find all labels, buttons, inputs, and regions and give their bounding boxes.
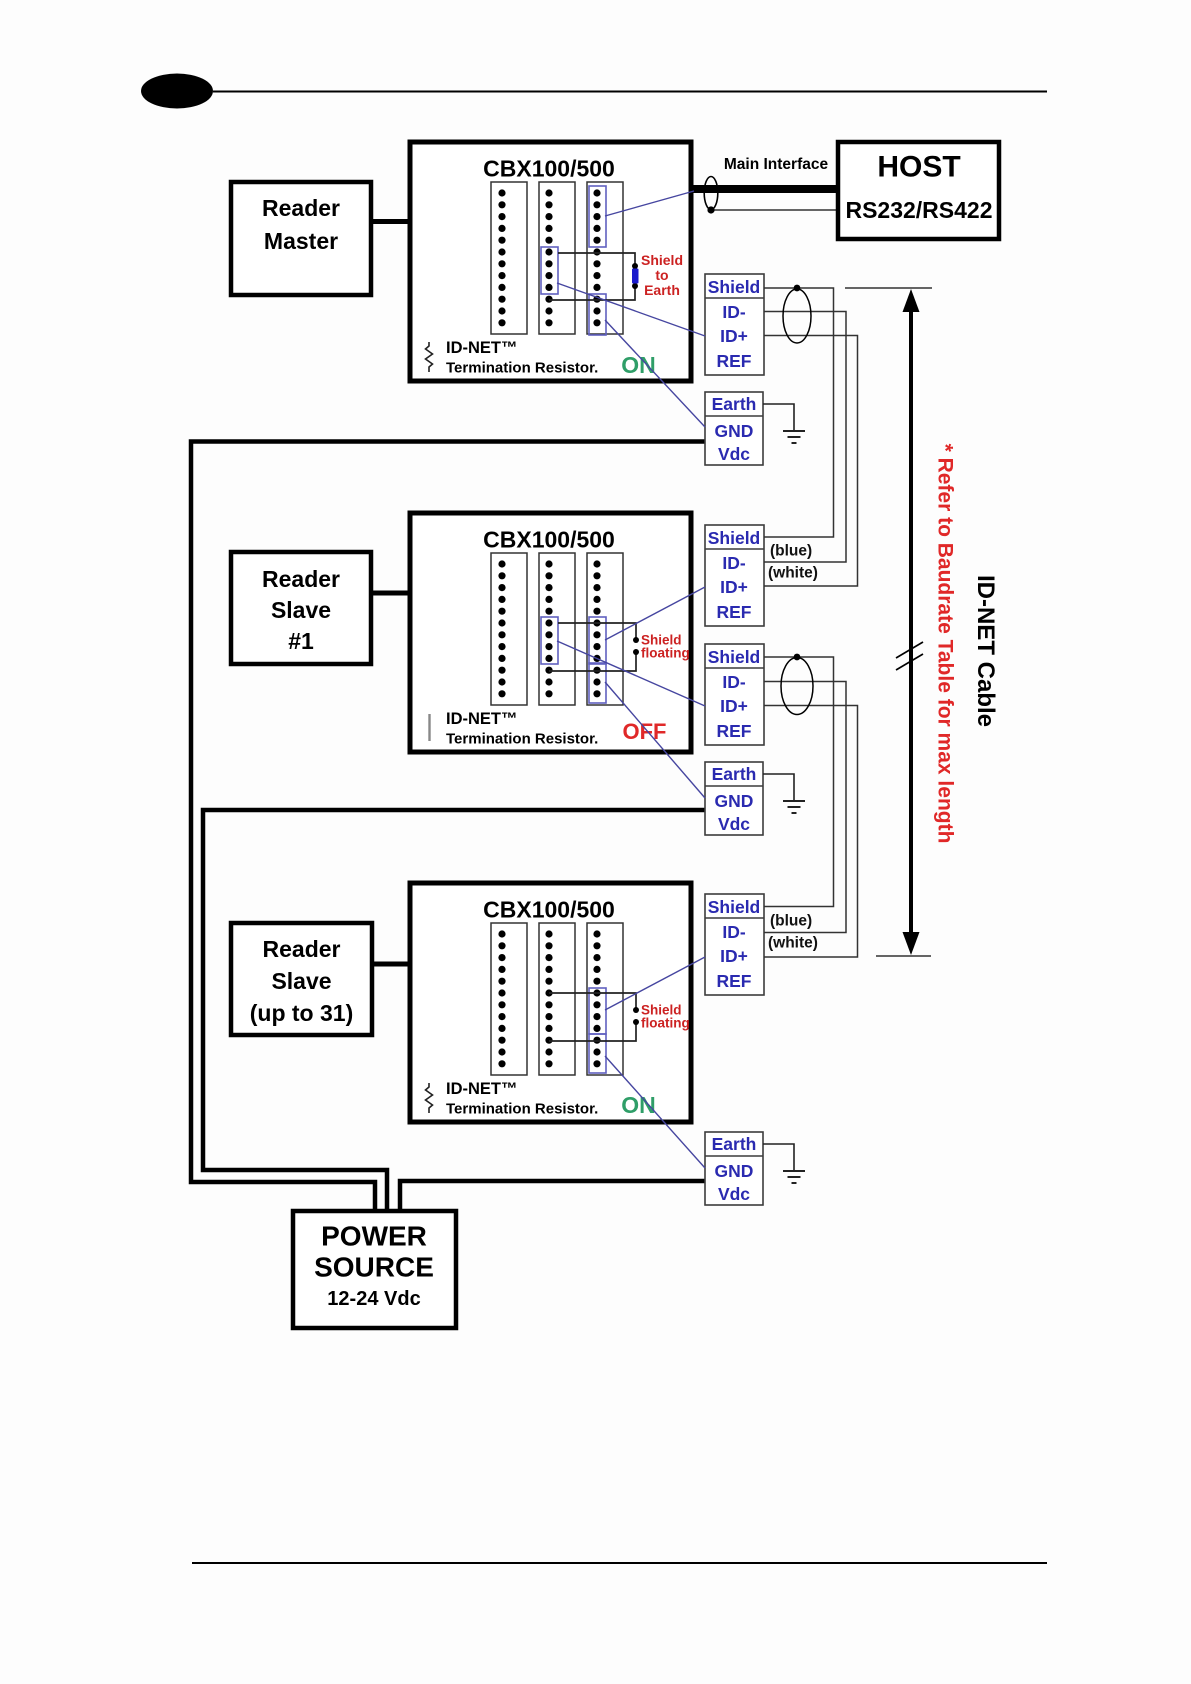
svg-text:POWER: POWER xyxy=(321,1221,427,1252)
label: ID-NET Cable (rotated) xyxy=(972,575,999,727)
node box: Earth/GND/Vdc (Slave #1) xyxy=(705,762,763,835)
svg-text:CBX100/500: CBX100/500 xyxy=(483,527,615,553)
junction dot on Shield wire (cable 1) xyxy=(794,285,801,292)
svg-text:ID-NET Cable: ID-NET Cable xyxy=(972,575,999,727)
header rule line xyxy=(213,91,1047,93)
resistor bypass bar CBX #2 xyxy=(428,714,430,741)
cable break symbol xyxy=(896,642,923,670)
svg-text:ID-NET™: ID-NET™ xyxy=(446,339,518,357)
svg-text:Slave: Slave xyxy=(271,968,331,994)
svg-text:Shield: Shield xyxy=(708,897,761,917)
junction dot on Shield wire (cable 2) xyxy=(794,654,801,661)
svg-text:(blue): (blue) xyxy=(770,543,812,560)
HOST RS232/RS422 box xyxy=(838,142,999,239)
terminal strip 2 of CBX #3 xyxy=(539,923,575,1075)
svg-text:RS232/RS422: RS232/RS422 xyxy=(845,197,992,223)
wire: reader Slave (up to 31) to CBX100/500 xyxy=(372,962,412,967)
callout line: CBX #2 port to GND (slave1 earth box) xyxy=(605,682,705,798)
label: Termination Resistor. CBX #1 xyxy=(446,360,598,377)
svg-text:ID+: ID+ xyxy=(720,946,748,966)
svg-text:(white): (white) xyxy=(768,565,818,582)
resistor symbol (zigzag) CBX #1 xyxy=(426,342,433,372)
wire: ID+ net, Master to Slave #1 xyxy=(764,336,858,587)
svg-text:ID+: ID+ xyxy=(720,696,748,716)
svg-text:ID+: ID+ xyxy=(720,326,748,346)
resistor symbol (zigzag) CBX #3 xyxy=(426,1083,433,1113)
cable sheath ellipse (main interface) xyxy=(704,177,718,210)
label: Main Interface xyxy=(724,156,829,173)
svg-text:SOURCE: SOURCE xyxy=(314,1252,434,1283)
svg-text:Earth: Earth xyxy=(644,282,680,298)
svg-text:GND: GND xyxy=(715,791,754,811)
wire: Shield net, Master to Slave #1 xyxy=(764,288,834,537)
svg-text:CBX100/500: CBX100/500 xyxy=(483,897,615,923)
wire: shield floating loop CBX #3 xyxy=(549,993,636,1041)
label: ID-NET(tm) CBX #2 xyxy=(446,710,518,728)
svg-text:Shield: Shield xyxy=(708,277,761,297)
wire: shield floating loop CBX #2 xyxy=(549,623,636,671)
svg-text:CBX100/500: CBX100/500 xyxy=(483,156,615,182)
wire: reader Master to CBX100/500 xyxy=(371,219,412,224)
svg-text:12-24 Vdc: 12-24 Vdc xyxy=(327,1288,420,1310)
svg-text:Master: Master xyxy=(264,228,338,254)
svg-text:Vdc: Vdc xyxy=(718,1184,750,1204)
svg-text:(white): (white) xyxy=(768,935,818,952)
CBX100/500 box #2 xyxy=(410,513,691,752)
svg-text:floating: floating xyxy=(641,1016,690,1031)
node box: Shield/ID-/ID+/REF (Reader Master) xyxy=(705,274,764,375)
svg-text:REF: REF xyxy=(717,351,752,371)
svg-text:Shield: Shield xyxy=(641,252,683,268)
callout line: CBX #2 port to ID+ (slave1 downstream box) xyxy=(557,641,705,706)
ground symbol (Slave #1) (earth wire + ground symbol) xyxy=(763,774,805,813)
label: Shield floating (red) CBX #3 xyxy=(641,1003,690,1031)
svg-text:ID-: ID- xyxy=(722,922,746,942)
svg-text:Earth: Earth xyxy=(712,1134,757,1154)
label: OFF (red) CBX #2 xyxy=(623,719,667,744)
POWER SOURCE box xyxy=(293,1211,456,1328)
label: ID-NET(tm) CBX #3 xyxy=(446,1080,518,1098)
label: * Refer to Baudrate Table for max length (red, rotated) xyxy=(934,444,957,844)
cable sheath ellipse (cable 2) xyxy=(781,658,813,715)
node box: Shield/ID-/ID+/REF (Slave #1 upstream) xyxy=(705,525,764,626)
svg-text:#1: #1 xyxy=(288,628,314,654)
terminal strip 1 of CBX #3 xyxy=(491,923,527,1075)
svg-text:ID-: ID- xyxy=(722,672,746,692)
callout line: CBX #1 port to ID+ (master shield box) xyxy=(557,283,705,336)
svg-text:Earth: Earth xyxy=(712,394,757,414)
reader Master box xyxy=(231,182,371,295)
wire: ID- net, Master to Slave #1 xyxy=(764,312,846,563)
svg-text:Reader: Reader xyxy=(262,566,340,592)
CBX100/500 box #3 xyxy=(410,883,691,1122)
ID-NET terminal highlight box (strip 3 upper) CBX #2 xyxy=(589,617,606,664)
svg-text:ID-: ID- xyxy=(722,302,746,322)
label: ON (green) CBX #3 xyxy=(621,1092,656,1118)
svg-text:(up to 31): (up to 31) xyxy=(250,1000,354,1026)
svg-text:Slave: Slave xyxy=(271,597,331,623)
svg-text:HOST: HOST xyxy=(877,151,960,184)
label: (white) wire cable 1 xyxy=(768,565,818,582)
ID-NET terminal highlight box (strip 2) CBX #2 xyxy=(541,617,558,664)
svg-text:Vdc: Vdc xyxy=(718,444,750,464)
ID-NET terminal highlight box (pins 1-5, strip 3) CBX #1 xyxy=(589,186,606,247)
svg-text:to: to xyxy=(655,267,668,283)
dimension anchor line top xyxy=(845,287,932,289)
dimension line with arrowheads (ID-NET cable) xyxy=(903,289,920,955)
wire: shield-to-earth loop CBX #1 xyxy=(549,253,635,300)
svg-text:REF: REF xyxy=(717,971,752,991)
label: Shield floating (red) CBX #2 xyxy=(641,633,690,661)
ID-NET terminal highlight box (pins 6-9, strip 2) CBX #1 xyxy=(541,247,558,294)
node box: Earth/GND/Vdc (Reader Master) xyxy=(705,392,763,465)
label: Shield to Earth (red) xyxy=(641,252,683,298)
svg-text:REF: REF xyxy=(717,602,752,622)
label: (white) wire cable 2 xyxy=(768,935,818,952)
ID-NET terminal highlight box (strip 3 lower) CBX #3 xyxy=(589,1034,606,1073)
terminal strip 1 of CBX #2 xyxy=(491,553,527,705)
wire: power net from Reader Master GND/Vdc to POWER SOURCE xyxy=(191,442,705,1212)
callout line: CBX #3 port to ID+ (slave2 shield box) xyxy=(605,957,705,1010)
wire: power net from Reader Slave (up to 31) GND/Vdc to POWER SOURCE xyxy=(400,1181,705,1211)
terminal strip 3 of CBX #3 xyxy=(587,923,623,1075)
header bullet ellipse xyxy=(141,74,213,109)
svg-text:ID-NET™: ID-NET™ xyxy=(446,710,518,728)
node box: Shield/ID-/ID+/REF (Slave #1 downstream) xyxy=(705,644,764,745)
node box: Shield/ID-/ID+/REF (Slave up to 31) xyxy=(705,894,764,995)
reader Slave #1 box xyxy=(231,552,371,664)
svg-text:Shield: Shield xyxy=(708,647,761,667)
svg-text:Earth: Earth xyxy=(712,764,757,784)
footer rule line xyxy=(192,1562,1047,1564)
callout line: CBX #1 port to GND (master earth box) xyxy=(605,320,705,427)
svg-text:Reader: Reader xyxy=(263,936,341,962)
terminal strip 2 of CBX #1 xyxy=(539,182,575,334)
wire: ID+ net, Slave #1 to Slave (up to 31) xyxy=(764,706,858,958)
svg-text:ID-: ID- xyxy=(722,553,746,573)
callout line: CBX #3 port to GND (slave2 earth box) xyxy=(605,1056,705,1168)
ground symbol (Reader Master) (earth wire + ground symbol) xyxy=(763,404,805,443)
termination resistor (blue) between shield and earth CBX #1 xyxy=(632,269,639,284)
svg-text:REF: REF xyxy=(717,721,752,741)
cable sheath ellipse (cable 1) xyxy=(783,289,811,343)
junction dots (floating shield) CBX #3 xyxy=(633,1007,639,1025)
junction dots (floating shield) CBX #2 xyxy=(633,637,639,655)
svg-text:* Refer to Baudrate Table for: * Refer to Baudrate Table for max length xyxy=(934,444,957,844)
ID-NET terminal highlight box (strip 3 lower) CBX #2 xyxy=(589,663,606,703)
CBX100/500 box #1 xyxy=(410,142,691,381)
svg-text:ID-NET™: ID-NET™ xyxy=(446,1080,518,1098)
wire: power net from Reader Slave #1 GND/Vdc to POWER SOURCE xyxy=(203,810,705,1211)
wire: reader Slave #1 to CBX100/500 xyxy=(371,591,412,596)
wire: main interface return line xyxy=(711,209,838,211)
ID-NET terminal highlight box (strip 3 upper) CBX #3 xyxy=(589,988,606,1034)
svg-text:Shield: Shield xyxy=(708,528,761,548)
svg-text:ID+: ID+ xyxy=(720,577,748,597)
label: Termination Resistor. CBX #3 xyxy=(446,1101,598,1118)
svg-text:floating: floating xyxy=(641,646,690,661)
callout line: CBX #1 port to Main Interface xyxy=(605,191,694,216)
terminal strip 3 of CBX #1 xyxy=(587,182,623,334)
junction dot on main interface xyxy=(707,206,714,213)
svg-text:ON: ON xyxy=(621,1092,656,1118)
ground symbol (Slave up to 31) (earth wire + ground symbol) xyxy=(763,1144,805,1183)
label: ID-NET(tm) CBX #1 xyxy=(446,339,518,357)
svg-text:GND: GND xyxy=(715,421,754,441)
svg-text:Reader: Reader xyxy=(262,195,340,221)
label: Termination Resistor. CBX #2 xyxy=(446,731,598,748)
callout line: CBX #2 port to ID+ (slave1 upstream box) xyxy=(605,587,705,640)
dimension anchor line bottom xyxy=(876,955,931,957)
node box: Earth/GND/Vdc (Slave up to 31) xyxy=(705,1132,763,1205)
svg-text:OFF: OFF xyxy=(623,719,667,744)
svg-text:Termination Resistor.: Termination Resistor. xyxy=(446,731,598,748)
ID-NET terminal highlight box (pins 11-13, strip 3) CBX #1 xyxy=(589,294,606,335)
wire: Main Interface thick cable xyxy=(693,185,838,193)
junction dots on shield-to-earth wire CBX #1 xyxy=(632,263,638,289)
svg-text:Vdc: Vdc xyxy=(718,814,750,834)
wire: ID- net, Slave #1 to Slave (up to 31) xyxy=(764,682,846,933)
terminal strip 3 of CBX #2 xyxy=(587,553,623,705)
reader Slave (up to 31) box xyxy=(231,923,372,1035)
svg-text:GND: GND xyxy=(715,1161,754,1181)
label: (blue) wire cable 1 xyxy=(770,543,812,560)
svg-text:Termination Resistor.: Termination Resistor. xyxy=(446,1101,598,1118)
terminal strip 2 of CBX #2 xyxy=(539,553,575,705)
svg-text:Termination Resistor.: Termination Resistor. xyxy=(446,360,598,377)
wire: Shield net, Slave #1 to Slave (up to 31) xyxy=(764,657,834,907)
label: (blue) wire cable 2 xyxy=(770,913,812,930)
svg-text:Main Interface: Main Interface xyxy=(724,156,829,173)
svg-text:(blue): (blue) xyxy=(770,913,812,930)
terminal strip 1 of CBX #1 xyxy=(491,182,527,334)
label: ON (green) CBX #1 xyxy=(621,352,656,378)
